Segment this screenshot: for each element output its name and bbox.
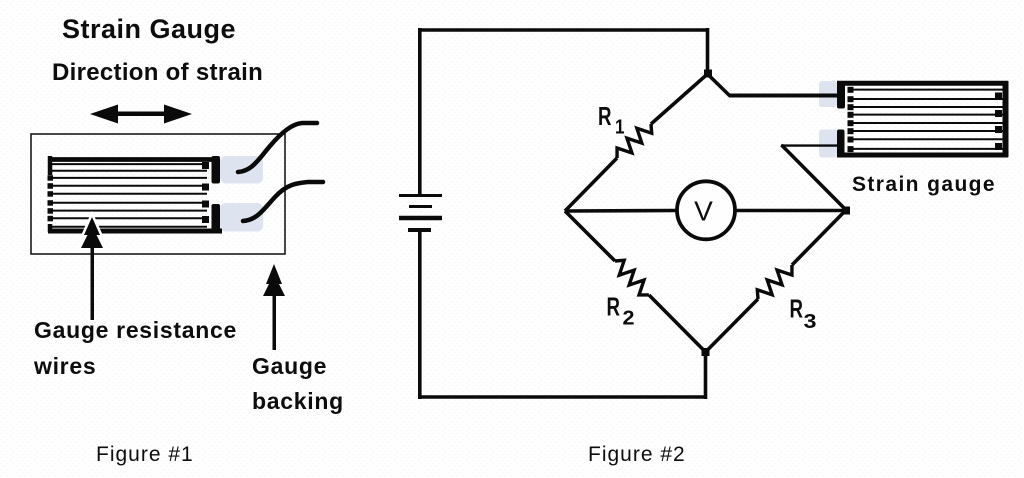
wire: left node to voltmeter	[565, 209, 676, 213]
wire: battery bottom lead	[418, 230, 422, 399]
lead wire bottom (figure 1)	[243, 182, 323, 221]
wire: strain gauge bottom lead	[781, 144, 837, 146]
label R1	[598, 101, 625, 139]
wire: bridge bottom node drop	[704, 350, 708, 399]
lead wire top (figure 1)	[238, 123, 317, 172]
node: bottom junction	[702, 348, 710, 356]
strain gauge grid (bridge)	[837, 81, 1008, 157]
gauge resistance wires grid (figure 1)	[48, 156, 223, 232]
svg-text:R: R	[790, 294, 804, 324]
resistor R2	[610, 256, 654, 300]
svg-text:1: 1	[615, 117, 625, 139]
wire: left node to R2	[565, 211, 615, 261]
svg-text:R: R	[598, 101, 612, 131]
gauge backing rectangle	[31, 134, 285, 254]
label: Gauge backing	[252, 353, 344, 414]
svg-text:Strain gauge: Strain gauge	[852, 173, 996, 196]
wire: top node to R1	[651, 74, 708, 124]
svg-text:Gauge: Gauge	[252, 353, 327, 379]
svg-text:3: 3	[804, 311, 817, 333]
caption: Figure #1	[96, 443, 194, 466]
solder pad bottom (figure 1)	[220, 203, 263, 232]
solder pad top (bridge strain gauge)	[819, 81, 837, 107]
solder pad top (figure 1)	[220, 156, 263, 184]
wire: to strain gauge top terminal	[729, 94, 840, 98]
arrow: direction of strain double-headed	[90, 105, 192, 124]
svg-text:Figure #2: Figure #2	[588, 443, 686, 466]
strain gauge terminal bar bottom (bridge)	[837, 130, 845, 158]
resistor R3	[753, 260, 797, 304]
label: Direction of strain	[52, 59, 263, 86]
svg-text:R: R	[607, 292, 621, 322]
solder pad bottom (bridge strain gauge)	[819, 130, 837, 158]
wire: bottom node to R3	[706, 299, 759, 352]
caption: Figure #2	[588, 443, 686, 466]
wire: bridge top node drop	[706, 28, 710, 76]
gauge terminal bar bottom (figure 1)	[212, 204, 221, 231]
svg-text:Figure #1: Figure #1	[96, 443, 194, 466]
wire: bottom rail battery to bridge	[418, 395, 707, 399]
wire: top node to strain gauge (diagonal)	[708, 74, 731, 96]
node: top junction	[704, 70, 712, 78]
node: right junction	[842, 207, 850, 215]
battery B1	[399, 196, 442, 231]
label R2	[607, 292, 635, 330]
svg-text:backing: backing	[252, 388, 344, 414]
svg-text:Gauge resistance: Gauge resistance	[34, 317, 237, 343]
wire: voltmeter to right node	[735, 209, 847, 213]
gauge terminal bar top (figure 1)	[212, 156, 221, 184]
wire: top rail battery to bridge	[418, 28, 709, 32]
wire: R1 to left node	[565, 158, 617, 211]
wire: strain gauge to right node (diagonal)	[782, 145, 847, 210]
arrow to gauge resistance wires	[81, 217, 103, 248]
arrow to gauge backing	[263, 264, 285, 350]
label R3	[790, 294, 817, 334]
svg-text:Strain Gauge: Strain Gauge	[62, 14, 236, 44]
wire: battery top lead	[418, 28, 422, 196]
svg-text:wires: wires	[33, 353, 96, 379]
strain gauge terminal bar top (bridge)	[837, 81, 845, 109]
wire: R3 to right node	[792, 210, 846, 265]
svg-text:2: 2	[623, 308, 635, 330]
voltmeter V	[677, 181, 735, 239]
label: Strain gauge	[852, 173, 996, 196]
svg-text:Direction of strain: Direction of strain	[52, 59, 263, 86]
resistor R1	[612, 119, 656, 163]
wire: R2 to bottom node	[649, 295, 706, 352]
title: Strain Gauge	[62, 14, 236, 44]
svg-text:V: V	[694, 196, 713, 227]
label: Gauge resistance wires	[33, 317, 237, 379]
